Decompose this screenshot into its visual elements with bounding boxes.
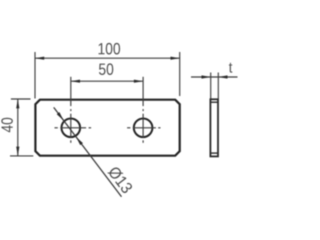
leader line for Ø13	[54, 107, 122, 196]
chamfer edge top side view	[210, 101, 218, 103]
leader arrow lower (points to hole edge)	[76, 137, 83, 145]
dimension 100 line with arrows	[35, 57, 180, 60]
dimension label Ø13 (rotated along leader)	[107, 165, 133, 194]
dimension t extension line right	[217, 73, 219, 99]
centerline horizontal left hole	[55, 127, 92, 129]
dimension 100 extension line left	[34, 52, 36, 99]
dimension label 40 (rotated)	[1, 118, 13, 133]
leader arrow upper (points to hole edge)	[57, 112, 64, 120]
dimension t extension line left	[210, 73, 212, 99]
dimension 40 extension line top	[11, 98, 31, 100]
hole left Ø13	[62, 119, 81, 138]
plate outline side view	[210, 99, 218, 156]
dimension label 50	[99, 63, 113, 75]
dimension 40 extension line bottom	[10, 155, 33, 157]
dimension t line with outside arrows	[191, 75, 238, 78]
dimension 40 line with arrows	[16, 99, 19, 156]
dimension 100 extension line right	[179, 52, 181, 96]
chamfer edge bottom side view	[210, 152, 218, 154]
centerline horizontal right hole	[127, 127, 160, 129]
centerline vertical left hole / extension for 50 dim	[70, 77, 72, 143]
dimension label 100	[99, 43, 121, 55]
plate outline front view	[35, 100, 179, 156]
dimension label t	[229, 63, 232, 73]
hole right Ø13	[134, 119, 153, 138]
dimension 50 line with arrows	[71, 80, 143, 83]
centerline vertical right hole / extension for 50 dim	[142, 77, 144, 143]
